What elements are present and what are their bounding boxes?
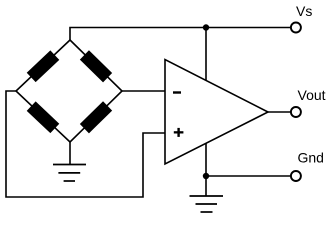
wire bridge diamond — [16, 40, 122, 142]
junction dot at ground rail — [203, 173, 209, 179]
svg-text:Gnd: Gnd — [298, 150, 324, 166]
op-amp U1 — [165, 60, 268, 165]
resistor R1 (bridge top-left) — [27, 50, 60, 82]
terminal Vs — [291, 23, 301, 33]
terminal Gnd — [291, 171, 301, 181]
wire bridge top node to Vs rail — [70, 28, 290, 41]
resistor R3 (bridge bottom-left) — [27, 101, 60, 133]
terminal Vout — [291, 107, 301, 117]
svg-text:Vout: Vout — [298, 87, 326, 103]
wire bridge right node to op-amp inverting input — [122, 90, 165, 92]
svg-text:Vs: Vs — [296, 3, 312, 19]
resistor R2 (bridge top-right) — [80, 50, 112, 82]
wire op-amp bottom to ground — [205, 143, 207, 196]
ground symbol (op-amp) — [190, 196, 224, 212]
op-amp inverting input label - — [173, 91, 181, 93]
ground symbol (bridge) — [53, 165, 86, 182]
resistor R4 (bridge bottom-right) — [80, 101, 112, 133]
wire ground rail to Gnd terminal — [206, 175, 290, 177]
op-amp non-inverting input label + — [174, 128, 184, 137]
wire op-amp output to Vout terminal — [268, 111, 290, 113]
wire bridge left node around bottom to op-amp non-inverting input — [6, 91, 165, 197]
wire bridge bottom node to ground — [69, 142, 71, 165]
junction dot at Vs rail — [203, 24, 209, 30]
wire Vs rail to op-amp top — [205, 28, 207, 82]
